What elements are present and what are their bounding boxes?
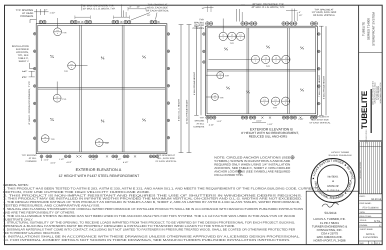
svg-text:HEAD, EACH SIDE: HEAD, EACH SIDE — [147, 6, 168, 9]
svg-text:DWG NAME:: DWG NAME: — [360, 202, 372, 204]
svg-text:OF EACH VERTICAL: OF EACH VERTICAL — [313, 14, 335, 17]
svg-text:5. SEALING AND FLASHING STRATE: 5. SEALING AND FLASHING STRATEGIES FOR O… — [3, 207, 303, 211]
svg-text:CORNERS: CORNERS — [193, 27, 204, 30]
svg-text:SPACING: SPACING — [194, 119, 204, 122]
svg-text:N.T.S.: N.T.S. — [374, 220, 381, 223]
svg-text:1/2: 1/2 — [222, 34, 224, 36]
svg-text:6. THE 1/3 ALLOWABLE STRESS IN: 6. THE 1/3 ALLOWABLE STRESS INCREASE HAS… — [3, 214, 295, 218]
svg-text:EXTERIOR ELEVATION A: EXTERIOR ELEVATION A — [76, 168, 122, 172]
svg-text:FTA-T14000-N: FTA-T14000-N — [363, 206, 379, 209]
svg-text:TYP.: TYP. — [62, 98, 66, 100]
svg-text:CONSULTING, INC.: CONSULTING, INC. — [317, 229, 343, 232]
svg-text:4 1/2": 4 1/2" — [67, 161, 72, 163]
svg-text:TED TO PREVENT GALVANIC REACTI: TED TO PREVENT GALVANIC REACTIONS. — [3, 231, 60, 235]
svg-text:2": 2" — [45, 9, 47, 12]
svg-text:1 1/2": 1 1/2" — [44, 159, 49, 161]
svg-text:TYP.: TYP. — [64, 70, 68, 72]
svg-text:SIGN:: SIGN: — [360, 211, 365, 213]
svg-text:5/1/2014: 5/1/2014 — [324, 211, 336, 215]
svg-text:SPACING: SPACING — [194, 21, 204, 24]
svg-text:12' MAX FRAME HEIGHT: 12' MAX FRAME HEIGHT — [186, 100, 189, 124]
svg-text:FX: 877-299-4151: FX: 877-299-4151 — [378, 86, 380, 100]
svg-text:AT SILL: AT SILL — [29, 157, 37, 160]
svg-text:1/2: 1/2 — [231, 34, 233, 36]
svg-text:1/2: 1/2 — [285, 57, 287, 59]
svg-text:TYP., SEE: TYP., SEE — [17, 54, 28, 57]
svg-text:2014-05-01 23:50:06-05:00: 2014-05-01 23:50:06-05:00 — [328, 154, 351, 156]
svg-text:EDITION, FOR USE OUTSIDE THE H: EDITION, FOR USE OUTSIDE THE HIGH VELOCI… — [3, 190, 150, 194]
svg-text:4 1/2": 4 1/2" — [51, 162, 56, 164]
svg-text:4 1/2": 4 1/2" — [123, 161, 128, 163]
svg-text:C: C — [379, 225, 381, 228]
svg-text:DATE:: DATE: — [360, 195, 366, 197]
svg-text:4. THE DESIGN PRESSURE RATINGS: 4. THE DESIGN PRESSURE RATINGS OF THIS P… — [3, 200, 300, 204]
svg-text:TYP.: TYP. — [105, 142, 109, 144]
svg-text:PH: 800-866-2227: PH: 800-866-2227 — [376, 86, 378, 100]
svg-text:1. THIS PRODUCT HAS BEEN TESTE: 1. THIS PRODUCT HAS BEEN TESTED TO ASTM … — [3, 187, 316, 191]
svg-text:WWW.TUBELITEINC.COM: WWW.TUBELITEINC.COM — [380, 83, 382, 104]
svg-text:LOCATION,: LOCATION, — [16, 51, 29, 54]
svg-text:TYP. SPACING AT: TYP. SPACING AT — [157, 154, 175, 157]
svg-text:48" MAX. ON CENTER, TYP.: 48" MAX. ON CENTER, TYP. — [83, 5, 114, 8]
svg-text:AT HEAD: AT HEAD — [22, 12, 33, 15]
svg-text:TYP.: TYP. — [266, 65, 270, 67]
svg-text:1/2: 1/2 — [254, 57, 256, 59]
svg-text:★: ★ — [332, 180, 334, 183]
svg-text:DRAWN:: DRAWN: — [360, 224, 368, 226]
svg-text:TYP. SPACING AT: TYP. SPACING AT — [311, 116, 329, 119]
svg-text:SERIES T14000: SERIES T14000 — [367, 18, 371, 40]
svg-text:8' MAX O.L.G. HEIGHT: 8' MAX O.L.G. HEIGHT — [178, 99, 181, 121]
svg-text:TYP.: TYP. — [62, 32, 66, 34]
svg-text:1/2": 1/2" — [137, 6, 141, 8]
svg-text:1/2: 1/2 — [98, 141, 100, 143]
svg-text:8' HEIGHT WITH NO REINFORCEMEN: 8' HEIGHT WITH NO REINFORCEMENT, — [241, 131, 299, 135]
svg-text:SHEET NAME:: SHEET NAME: — [360, 228, 374, 230]
svg-text:OF 4: OF 4 — [375, 242, 380, 245]
svg-text:GENERAL NOTES:: GENERAL NOTES: — [3, 183, 28, 186]
svg-text:8' MAX FRAME HEIGHT: 8' MAX FRAME HEIGHT — [193, 72, 196, 95]
svg-text:LUCAS A. TURNER, P.E.: LUCAS A. TURNER, P.E. — [313, 218, 345, 221]
svg-text:TABLE C,: TABLE C, — [18, 57, 28, 60]
svg-text:OF EACH VERTICAL: OF EACH VERTICAL — [309, 122, 330, 125]
svg-text:TYP. SPACING AT: TYP. SPACING AT — [148, 3, 168, 6]
svg-text:1 1/2": 1 1/2" — [116, 158, 121, 160]
svg-text:SYMBOL) SHOWN IN ELEVATIONS A: SYMBOL) SHOWN IN ELEVATIONS A AND B ARE — [214, 160, 290, 163]
svg-text:TUBELITE: TUBELITE — [360, 91, 369, 129]
svg-text:1 1/2": 1 1/2" — [298, 118, 303, 120]
svg-text:40" MAX. O.L.G. WIDTH, TYP.: 40" MAX. O.L.G. WIDTH, TYP. — [251, 6, 284, 9]
svg-text:TYP. SPACING: TYP. SPACING — [16, 9, 34, 12]
svg-text:TYP.: TYP. — [273, 107, 277, 109]
svg-text:TYP.: TYP. — [225, 75, 229, 77]
svg-text:AT SILL: AT SILL — [196, 122, 204, 125]
svg-text:FASTENER: FASTENER — [16, 48, 29, 51]
svg-text:SHEET 2: SHEET 2 — [19, 60, 29, 63]
svg-text:1200 JAMAIKA AVE.: 1200 JAMAIKA AVE. — [316, 236, 342, 239]
svg-text:TYP. SPACING AT: TYP. SPACING AT — [315, 8, 334, 11]
svg-text:1/2": 1/2" — [202, 7, 206, 9]
svg-text:1/2: 1/2 — [285, 99, 287, 101]
svg-text:1/2: 1/2 — [275, 57, 277, 59]
svg-text:4 1/2": 4 1/2" — [256, 120, 261, 122]
svg-text:4" MAX. FROM CORNERS, TYP.: 4" MAX. FROM CORNERS, TYP. — [28, 81, 31, 125]
svg-text:1/2: 1/2 — [275, 99, 277, 101]
svg-text:STOREFRONT SYSTEM: STOREFRONT SYSTEM — [372, 12, 376, 46]
svg-text:TESTED PRESSURES, AND COMPARAT: TESTED PRESSURES, AND COMPARATIVE ANALYS… — [3, 204, 100, 208]
svg-text:1/2: 1/2 — [57, 30, 59, 32]
svg-text:12' HEIGHT WITH P1437 STEEL RE: 12' HEIGHT WITH P1437 STEEL REINFORCEMEN… — [58, 174, 139, 178]
svg-text:FOR ALL FASTENER TYPES.: FOR ALL FASTENER TYPES. — [214, 174, 243, 177]
svg-text:No 58201: No 58201 — [328, 175, 339, 178]
svg-text:STATE OF: STATE OF — [327, 185, 339, 188]
svg-text:1: 1 — [371, 242, 373, 245]
svg-text:1 1/2": 1 1/2" — [50, 12, 56, 15]
svg-text:9. INSTALLATIONS SHALL BE IN A: 9. INSTALLATIONS SHALL BE IN ACCORDANCE … — [3, 235, 300, 239]
svg-text:1 1/2": 1 1/2" — [267, 123, 272, 125]
svg-text:CORNERS: CORNERS — [20, 15, 33, 18]
svg-text:8. DISSIMILAR MATERIALS THAT C: 8. DISSIMILAR MATERIALS THAT COME INTO C… — [3, 228, 295, 232]
svg-text:10. FOR INTERNAL JOINERY DETAI: 10. FOR INTERNAL JOINERY DETAILS NOT SHO… — [3, 238, 290, 242]
svg-text:1/2: 1/2 — [219, 73, 221, 75]
svg-text:TYP.: TYP. — [220, 97, 224, 99]
svg-text:INSTALLATION: INSTALLATION — [12, 45, 29, 48]
svg-text:4": 4" — [299, 11, 301, 13]
svg-text:7' MAX O.L.G. HEIGHT: 7' MAX O.L.G. HEIGHT — [318, 75, 321, 97]
svg-text:AND ARE THE RESPONSIBILITY OF: AND ARE THE RESPONSIBILITY OF OTHERS. — [3, 211, 75, 215]
svg-text:2. THIS PRODUCT IS NON-IMPACT: 2. THIS PRODUCT IS NON-IMPACT RESISTANT … — [3, 194, 302, 198]
svg-text:OF EACH VERTICAL: OF EACH VERTICAL — [146, 9, 169, 12]
svg-text:1/2": 1/2" — [299, 14, 303, 16]
svg-text:1/2" HEAD, EACH SIDE: 1/2" HEAD, EACH SIDE — [312, 11, 337, 14]
svg-text:SILL, EACH SIDE: SILL, EACH SIDE — [157, 157, 175, 160]
svg-text:COA # 29775: COA # 29775 — [321, 232, 338, 235]
svg-text:1/2: 1/2 — [240, 34, 242, 36]
svg-text:1 1/2": 1 1/2" — [91, 158, 96, 160]
svg-text:TYP.: TYP. — [230, 42, 234, 44]
svg-text:1 1/2": 1 1/2" — [217, 120, 222, 122]
svg-text:an Apogee company: an Apogee company — [365, 130, 367, 144]
svg-text:TYP.: TYP. — [199, 18, 204, 21]
svg-text:OPENINGS & BUCKING FASTENERS M: OPENINGS & BUCKING FASTENERS MUST BE PRO… — [3, 224, 235, 228]
svg-text:GRAND RAPIDS, MI 49544: GRAND RAPIDS, MI 49544 — [374, 82, 376, 103]
svg-text:NOTE: CIRCLED ANCHOR LOCATION: NOTE: CIRCLED ANCHOR LOCATIONS (SEE — [214, 156, 290, 159]
svg-text:7. STRUCTURAL SUITABILITY OF T: 7. STRUCTURAL SUITABILITY OF THE OPENING… — [3, 221, 295, 225]
svg-text:1/2: 1/2 — [44, 137, 46, 139]
svg-text:1 1/2": 1 1/2" — [59, 158, 64, 160]
svg-text:3. THIS PRODUCT MAY BE INSTALL: 3. THIS PRODUCT MAY BE INSTALLED IN INFI… — [3, 197, 302, 201]
svg-text:CORNERS: CORNERS — [193, 125, 204, 128]
svg-text:40" MAX. O.L.G. WIDTH, TYP.: 40" MAX. O.L.G. WIDTH, TYP. — [83, 8, 116, 11]
svg-text:SHT:: SHT: — [360, 242, 364, 244]
svg-text:48" MAX. ON CENTER, TYP.: 48" MAX. ON CENTER, TYP. — [252, 3, 284, 6]
svg-text:1 1/2": 1 1/2" — [22, 70, 27, 72]
svg-text:ANCHORS, SEE TABLE C, SHEET 2.: ANCHORS, SEE TABLE C, SHEET 2. NON-CIRCL… — [214, 167, 290, 170]
svg-text:LUCAS D TURNER: LUCAS D TURNER — [331, 151, 349, 154]
svg-text:REVISION HISTORY: REVISION HISTORY — [359, 161, 361, 178]
svg-text:TYP. SPACING: TYP. SPACING — [22, 154, 37, 157]
svg-text:8' MAX FRAME HEIGHT: 8' MAX FRAME HEIGHT — [323, 76, 326, 99]
svg-text:TYP.: TYP. — [51, 138, 55, 140]
svg-text:1/2: 1/2 — [265, 57, 267, 59]
svg-text:OF EACH VERTICAL: OF EACH VERTICAL — [155, 160, 176, 163]
svg-text:FL PE # 58201: FL PE # 58201 — [320, 222, 339, 225]
svg-text:REAL TEAM:: REAL TEAM: — [360, 215, 372, 217]
svg-text:TURNER ENGINEERING &: TURNER ENGINEERING & — [312, 225, 347, 228]
svg-text:1/2: 1/2 — [264, 99, 266, 101]
svg-text:4": 4" — [130, 6, 132, 8]
svg-text:4 1/2": 4 1/2" — [22, 76, 27, 78]
svg-text:ELEVATIONS: ELEVATIONS — [363, 236, 378, 239]
svg-text:1/2: 1/2 — [56, 96, 58, 98]
svg-text:3056 WALKER RIDGE DR NW: 3056 WALKER RIDGE DR NW — [372, 81, 374, 105]
svg-text:ANCHOR LOCATIONS (SEE SYMBOL): ANCHOR LOCATIONS (SEE SYMBOL) ARE REQUIR… — [214, 170, 290, 173]
svg-text:4 1/2": 4 1/2" — [209, 124, 214, 126]
svg-text:TUBELITE: TUBELITE — [362, 22, 366, 36]
svg-text:SCALE:: SCALE: — [360, 219, 367, 221]
svg-text:SILL, EACH SIDE: SILL, EACH SIDE — [311, 119, 329, 122]
svg-text:EXTERIOR ELEVATION B: EXTERIOR ELEVATION B — [250, 127, 293, 131]
svg-text:TYP.: TYP. — [200, 116, 205, 119]
svg-text:1/2: 1/2 — [214, 95, 216, 97]
svg-text:SUBSTRATE ONLY.: SUBSTRATE ONLY. — [3, 218, 33, 222]
svg-text:04.30.14: 04.30.14 — [371, 198, 381, 201]
svg-text:REQUIRED ONLY WHEN USING 1/4": REQUIRED ONLY WHEN USING 1/4" INSTALLATI… — [214, 163, 290, 166]
svg-text:NORTH PORT, FL 34288: NORTH PORT, FL 34288 — [314, 239, 346, 242]
svg-text:1/2": 1/2" — [147, 14, 151, 16]
svg-text:1/2: 1/2 — [71, 64, 73, 66]
svg-text:REDUCED SILL ANCHORS: REDUCED SILL ANCHORS — [249, 135, 288, 139]
svg-text:NOTES,: NOTES, — [366, 233, 375, 236]
svg-text:CORNERS: CORNERS — [26, 160, 37, 163]
